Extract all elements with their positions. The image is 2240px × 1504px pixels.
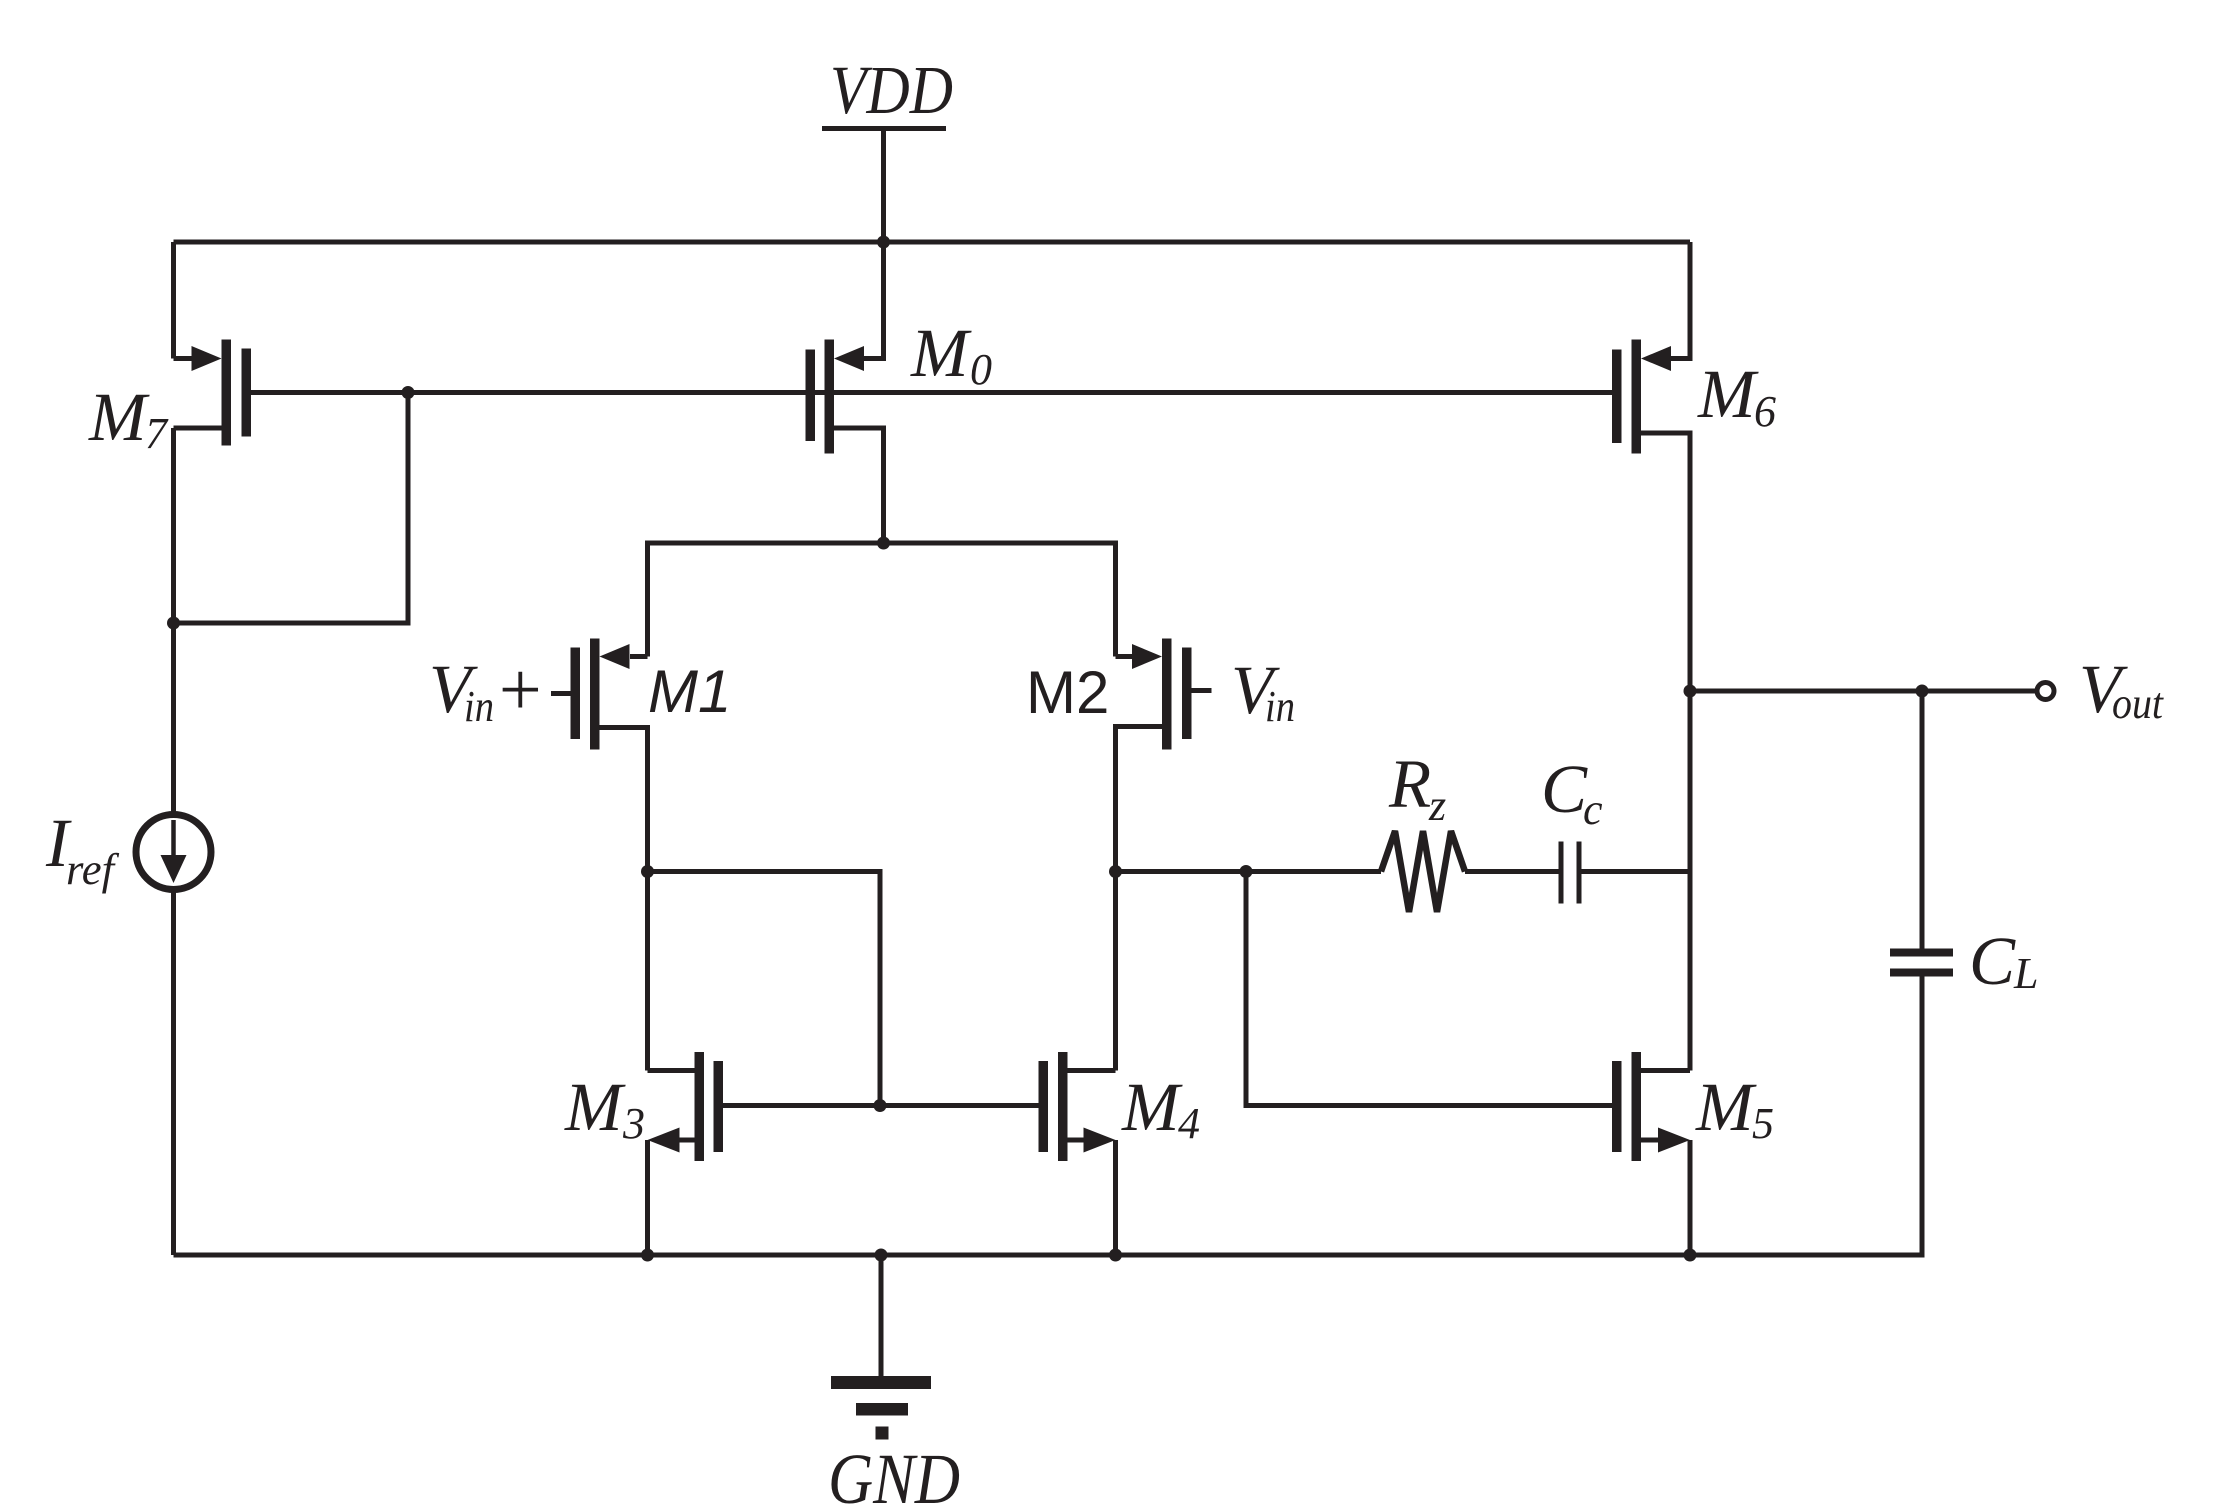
transistor M3 source wire — [679, 1138, 695, 1143]
svg-text:M: M — [1121, 1069, 1183, 1145]
node tail junction — [877, 537, 890, 550]
wire CL bottom — [174, 977, 1923, 1256]
wire top VDD rail — [174, 240, 1691, 245]
svg-text:GND: GND — [828, 1439, 960, 1504]
transistor M3 source arrow — [648, 1128, 680, 1153]
transistor M4 channel bar — [1058, 1052, 1068, 1161]
transistor M2 drain wire — [1116, 727, 1163, 1071]
transistor M7 gate bar — [242, 349, 252, 437]
node mirror gate junction — [874, 1099, 887, 1112]
transistor M2 gate bar — [1182, 648, 1192, 740]
current source Iref circle — [136, 815, 211, 890]
net VDD bar — [822, 126, 946, 131]
node VDD-rail junction — [877, 236, 890, 249]
transistor M5 source drop — [1688, 1140, 1693, 1255]
svg-text:M2: M2 — [1026, 659, 1109, 726]
wire bias gate rail — [251, 390, 1613, 395]
svg-text:R: R — [1388, 746, 1431, 822]
svg-text:M: M — [1695, 1069, 1757, 1145]
svg-text:z: z — [1428, 781, 1446, 830]
transistor M0 gate bar — [806, 350, 816, 442]
wire node A to Rz — [1116, 869, 1382, 874]
svg-text:+: + — [494, 648, 545, 732]
svg-text:5: 5 — [1752, 1099, 1774, 1148]
transistor M1 source wire — [630, 654, 648, 659]
transistor M6 gate bar — [1612, 350, 1622, 444]
transistor M1 drain wire — [600, 728, 648, 1071]
ground bar 3 — [876, 1427, 889, 1440]
svg-text:3: 3 — [622, 1099, 645, 1148]
transistor M6 channel bar — [1632, 340, 1642, 454]
svg-text:M1: M1 — [648, 658, 731, 725]
transistor M7 source wire — [174, 356, 195, 361]
transistor M0 source wire — [862, 242, 884, 359]
transistor M5 source arrow — [1658, 1128, 1690, 1153]
transistor M0 drain wire — [834, 428, 884, 543]
svg-text:C: C — [1969, 923, 2016, 999]
svg-text:M: M — [564, 1069, 626, 1145]
svg-text:in: in — [1265, 682, 1295, 731]
node M3 source junction — [641, 1249, 654, 1262]
wire tail rail — [648, 543, 1116, 657]
wire Cc to output column — [1582, 869, 1691, 874]
transistor M4 gate bar — [1039, 1061, 1049, 1152]
transistor M5 source wire — [1641, 1138, 1658, 1143]
transistor M7 channel bar — [222, 340, 232, 446]
svg-text:M: M — [88, 379, 150, 455]
transistor M0 channel bar — [825, 340, 835, 454]
transistor M4 source arrow — [1084, 1128, 1116, 1153]
svg-text:in: in — [464, 682, 494, 731]
transistor M4 source drop — [1113, 1140, 1118, 1255]
wire mirror diode link — [648, 872, 881, 1106]
transistor M5 gate bar — [1612, 1061, 1622, 1152]
capacitor Cc right plate — [1577, 842, 1582, 904]
svg-text:VDD: VDD — [830, 52, 953, 128]
transistor M1 channel bar — [590, 639, 600, 750]
node bias feedback junction — [167, 617, 180, 630]
wire bias feedback drop — [171, 393, 408, 624]
wire M5 gate drop — [1246, 872, 1612, 1106]
transistor M4 source wire — [1068, 1138, 1085, 1143]
svg-text:4: 4 — [1178, 1099, 1200, 1148]
ground bar 2 — [856, 1403, 908, 1416]
transistor M1 gate bar — [571, 648, 581, 740]
transistor M3 source drop — [645, 1140, 650, 1255]
svg-text:ref: ref — [66, 845, 120, 894]
transistor M7 source arrow — [192, 346, 222, 371]
wire VDD stem — [881, 129, 886, 243]
wire M7 source riser — [171, 242, 176, 359]
transistor M6 source arrow — [1641, 346, 1671, 371]
svg-text:out: out — [2112, 679, 2165, 728]
wire CL top — [1920, 691, 1925, 949]
node M2 drain junction — [1109, 865, 1122, 878]
svg-text:7: 7 — [145, 409, 169, 458]
wire Rz to Cc — [1465, 869, 1559, 874]
transistor M0 source arrow — [834, 346, 864, 371]
capacitor CL bottom plate — [1890, 969, 1953, 977]
svg-text:M: M — [1697, 356, 1759, 432]
capacitor CL top plate — [1890, 949, 1953, 957]
svg-text:C: C — [1541, 751, 1588, 827]
wire output line — [1690, 689, 2036, 694]
transistor M1 gate stub — [551, 691, 571, 696]
transistor M7 drain wire — [174, 426, 222, 431]
transistor M4 drain wire — [1068, 1068, 1116, 1073]
svg-text:M: M — [910, 315, 972, 391]
ground bar 1 — [831, 1376, 931, 1389]
ground stem — [879, 1255, 884, 1377]
transistor M2 source wire — [1116, 654, 1134, 659]
transistor M5 drain wire — [1641, 1068, 1690, 1073]
current source Iref arrow — [171, 820, 176, 858]
wire Iref to ground rail — [171, 890, 176, 1256]
transistor M2 gate stub — [1192, 688, 1212, 693]
node CL junction — [1916, 685, 1929, 698]
node bias gate junction — [402, 386, 415, 399]
transistor M3 gate bar — [714, 1061, 724, 1152]
node output junction — [1684, 685, 1697, 698]
wire M7 drain column — [171, 428, 176, 814]
node GND junction — [875, 1249, 888, 1262]
svg-text:6: 6 — [1754, 387, 1776, 436]
node M4 source junction — [1109, 1249, 1122, 1262]
transistor M6 drain wire — [1641, 433, 1690, 1071]
svg-text:0: 0 — [970, 345, 992, 394]
node A branch junction — [1240, 865, 1253, 878]
transistor M3 drain wire — [648, 1068, 695, 1073]
transistor M2 channel bar — [1162, 639, 1172, 750]
transistor M1 source arrow — [600, 644, 630, 669]
svg-text:c: c — [1583, 785, 1603, 834]
terminal Vout circle — [2037, 683, 2054, 700]
resistor Rz — [1381, 831, 1465, 912]
capacitor Cc left plate — [1559, 842, 1564, 904]
node M1 drain junction — [641, 865, 654, 878]
transistor M5 channel bar — [1632, 1052, 1642, 1161]
transistor M3 channel bar — [695, 1052, 705, 1161]
node M5 source junction — [1684, 1249, 1697, 1262]
transistor M6 source wire — [1669, 242, 1690, 359]
transistor M2 source arrow — [1132, 644, 1162, 669]
wire M3-M4 gate rail — [723, 1103, 1039, 1108]
svg-text:L: L — [2013, 949, 2038, 998]
